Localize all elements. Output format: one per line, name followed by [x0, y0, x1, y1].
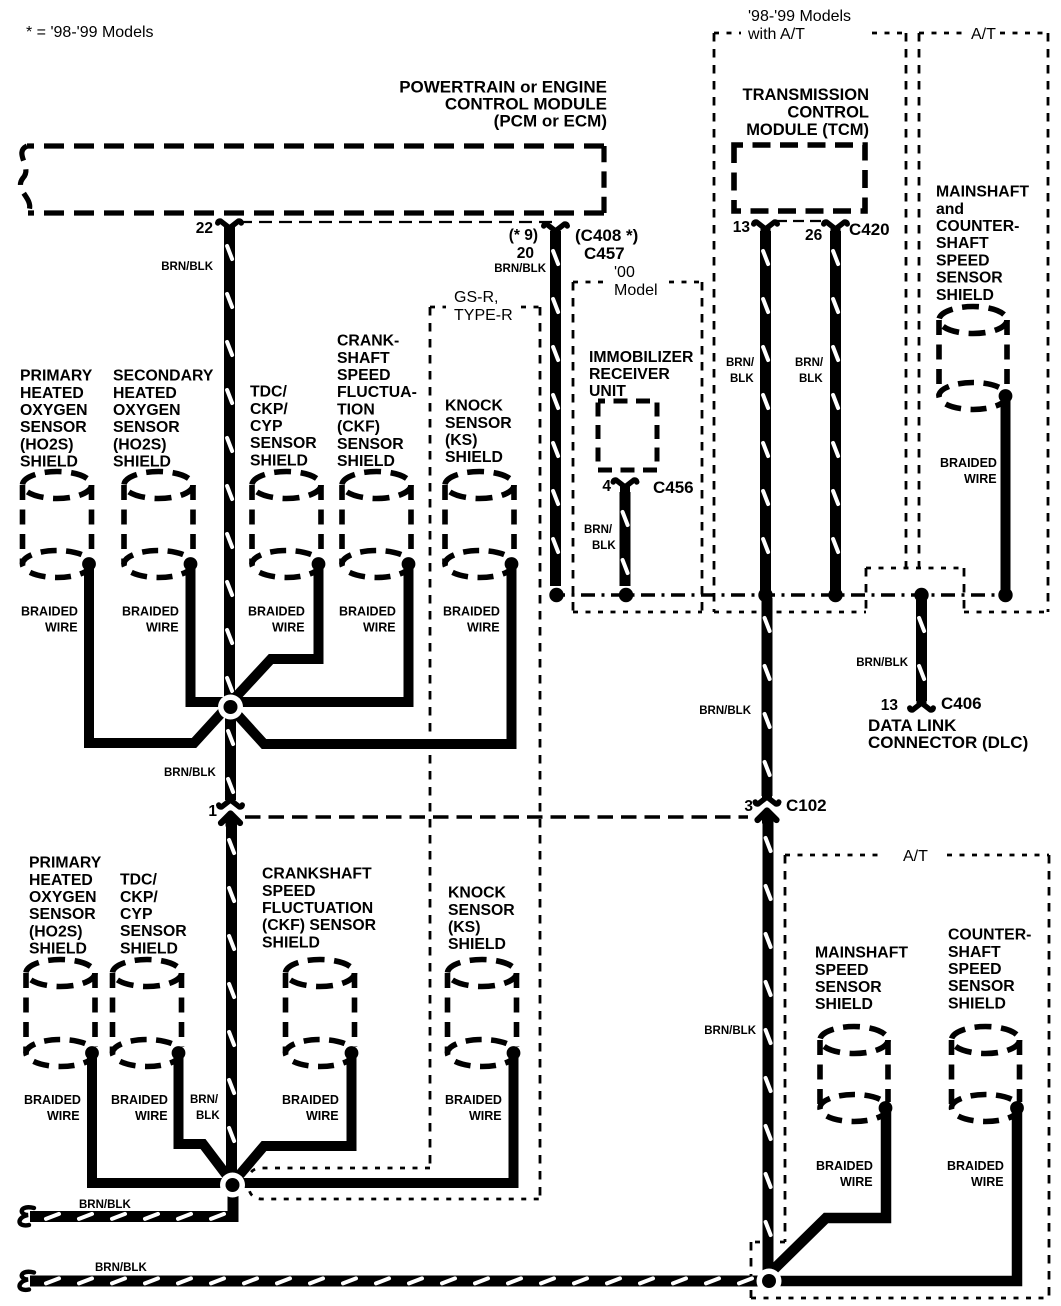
wire BRN/BLK TCM pin13 bus to C102: [762, 598, 773, 796]
svg-text:WIRE: WIRE: [363, 621, 396, 635]
shield cylinder primary HO2S (upper): [23, 472, 96, 578]
svg-text:TDC/: TDC/: [250, 384, 287, 401]
svg-text:HEATED: HEATED: [29, 872, 93, 889]
svg-text:BRN/BLK: BRN/BLK: [95, 1262, 147, 1274]
svg-text:BRAIDED: BRAIDED: [339, 605, 396, 619]
braided wire primary HO2S shield (upper): [89, 566, 226, 743]
svg-text:WIRE: WIRE: [469, 1109, 502, 1123]
wire BRN/BLK lower junction to left end: [30, 1189, 239, 1222]
bus node DLC wire: [914, 588, 928, 602]
junction node (bottom right): [757, 1269, 782, 1294]
svg-text:BRAIDED: BRAIDED: [21, 605, 78, 619]
svg-text:BLK: BLK: [592, 540, 616, 552]
svg-text:CYP: CYP: [120, 906, 152, 923]
svg-text:PRIMARY: PRIMARY: [20, 368, 93, 385]
dotted box at shield bus junction: [866, 568, 964, 612]
braided wire knock sensor shield (upper): [234, 566, 512, 744]
label braided wire TDC (lower): [111, 1093, 168, 1123]
svg-text:TYPE-R: TYPE-R: [454, 307, 513, 324]
svg-text:SHIELD: SHIELD: [29, 941, 87, 958]
svg-text:'98-'99 Models: '98-'99 Models: [748, 8, 851, 25]
pin number 13 (TCM): [733, 219, 751, 236]
svg-text:OXYGEN: OXYGEN: [20, 402, 88, 419]
svg-text:SHIELD: SHIELD: [262, 934, 320, 951]
svg-text:SENSOR: SENSOR: [20, 419, 87, 436]
svg-text:KNOCK: KNOCK: [448, 885, 507, 902]
label DATA LINK CONNECTOR (DLC): [868, 716, 1028, 752]
svg-text:BRAIDED: BRAIDED: [24, 1093, 81, 1107]
svg-text:SENSOR: SENSOR: [448, 902, 515, 919]
svg-text:SPEED: SPEED: [948, 961, 1002, 978]
svg-text:OXYGEN: OXYGEN: [29, 889, 97, 906]
shield bus dash-dot line: [551, 593, 1006, 597]
label '00 Model: [614, 264, 658, 299]
label mainshaft and countershaft shield: [936, 184, 1029, 304]
svg-text:MODULE (TCM): MODULE (TCM): [746, 121, 869, 139]
svg-text:20: 20: [517, 245, 534, 262]
svg-text:SPEED: SPEED: [262, 883, 316, 900]
svg-text:22: 22: [196, 220, 213, 237]
label PCM: [399, 78, 607, 131]
svg-text:SHIELD: SHIELD: [948, 995, 1006, 1012]
label C102: [786, 796, 827, 815]
braided wire mainshaft/countershaft shield (top right): [1001, 400, 1011, 592]
label CKF shield (lower): [262, 866, 377, 952]
svg-text:BRAIDED: BRAIDED: [248, 605, 305, 619]
svg-text:KNOCK: KNOCK: [445, 398, 504, 415]
svg-text:BRAIDED: BRAIDED: [816, 1159, 873, 1173]
label secondary HO2S shield (upper): [113, 368, 214, 471]
braided wire secondary HO2S shield (upper): [191, 566, 225, 702]
wire BRN/BLK junction to connector 1: [225, 711, 236, 800]
pin number 22: [196, 220, 213, 237]
braided wire CKF shield (upper): [237, 566, 409, 702]
svg-text:SENSOR: SENSOR: [815, 979, 882, 996]
svg-text:SHIELD: SHIELD: [120, 940, 178, 957]
svg-text:BRAIDED: BRAIDED: [111, 1093, 168, 1107]
svg-text:SHAFT: SHAFT: [936, 235, 989, 252]
svg-text:SENSOR: SENSOR: [948, 978, 1015, 995]
svg-text:SHIELD: SHIELD: [936, 287, 994, 304]
label C456: [653, 478, 694, 497]
dashed link pin13 to pin26: [776, 220, 826, 222]
svg-text:BRN/: BRN/: [795, 357, 824, 369]
svg-text:SHAFT: SHAFT: [948, 944, 1001, 961]
dotted box '98-'99 Models with A/T: [714, 33, 906, 612]
dotted box GS-R TYPE-R: [248, 307, 540, 1199]
pin 22 connector flare: [218, 221, 242, 233]
label TDC/CKP/CYP shield (upper): [250, 384, 317, 470]
svg-text:SHIELD: SHIELD: [337, 453, 395, 470]
label A/T (bottom): [903, 848, 928, 865]
pin number 1: [208, 803, 217, 820]
bus node C457 wire: [549, 588, 563, 602]
svg-text:BRAIDED: BRAIDED: [443, 605, 500, 619]
svg-text:WIRE: WIRE: [971, 1175, 1004, 1189]
svg-text:Model: Model: [614, 282, 658, 299]
label GS-R TYPE-R: [454, 289, 513, 324]
svg-text:HEATED: HEATED: [20, 385, 84, 402]
svg-text:(KS): (KS): [448, 919, 480, 936]
braided wire knock sensor shield (lower): [240, 1056, 514, 1183]
svg-text:SENSOR: SENSOR: [29, 906, 96, 923]
svg-text:TION: TION: [337, 401, 375, 418]
label '98-'99 Models with A/T: [747, 8, 851, 43]
svg-text:SHIELD: SHIELD: [250, 452, 308, 469]
label mainshaft speed sensor shield: [815, 945, 908, 1014]
wire BRN/BLK from immobilizer C456 pin 4: [620, 492, 631, 586]
svg-text:COUNTER-: COUNTER-: [948, 927, 1031, 944]
svg-text:SECONDARY: SECONDARY: [113, 368, 214, 385]
svg-text:with A/T: with A/T: [747, 26, 805, 43]
wire BRN/BLK bus to C406 DLC: [916, 598, 927, 701]
braided wire TDC/CKP/CYP shield (upper): [234, 566, 319, 699]
svg-text:BRN/BLK: BRN/BLK: [161, 261, 213, 273]
label BRN/BLK lower main wire: [190, 1094, 220, 1122]
shield cylinder primary HO2S (lower): [26, 960, 99, 1067]
pin 26 connector flare (TCM): [824, 222, 848, 234]
svg-text:HEATED: HEATED: [113, 385, 177, 402]
svg-text:SHIELD: SHIELD: [113, 454, 171, 471]
svg-text:BLK: BLK: [799, 373, 823, 385]
svg-text:WIRE: WIRE: [467, 621, 500, 635]
svg-text:CONNECTOR (DLC): CONNECTOR (DLC): [868, 733, 1028, 752]
label braided wire CKF (lower): [282, 1093, 339, 1123]
svg-text:(C408 *): (C408 *): [575, 226, 638, 245]
label A/T (top): [971, 26, 996, 43]
svg-text:BRN/BLK: BRN/BLK: [856, 657, 908, 669]
label BRN/BLK DLC wire: [856, 657, 908, 669]
svg-text:TRANSMISSION: TRANSMISSION: [742, 86, 869, 104]
svg-text:BRAIDED: BRAIDED: [122, 605, 179, 619]
svg-text:(PCM or ECM): (PCM or ECM): [494, 112, 607, 131]
shield cylinder mainshaft speed sensor: [820, 1027, 892, 1122]
svg-text:SENSOR: SENSOR: [445, 415, 512, 432]
svg-text:WIRE: WIRE: [47, 1109, 80, 1123]
svg-text:13: 13: [881, 697, 899, 714]
dotted box A/T (top right): [919, 33, 1048, 612]
label IMMOBILIZER RECEIVER UNIT: [589, 349, 694, 400]
svg-text:BLK: BLK: [196, 1110, 220, 1122]
label BRN/BLK mid-left run: [79, 1199, 131, 1211]
svg-text:CYP: CYP: [250, 418, 282, 435]
label countershaft speed sensor shield: [948, 927, 1031, 1013]
pin number 13 (DLC): [881, 697, 899, 714]
label BRN/BLK C102 wire (upper): [699, 705, 751, 717]
svg-text:(HO2S): (HO2S): [29, 923, 83, 940]
svg-text:(HO2S): (HO2S): [20, 436, 74, 453]
label BRN/BLK TCM pin26 wire: [795, 357, 824, 385]
shield cylinder secondary HO2S (upper): [124, 472, 197, 578]
svg-text:UNIT: UNIT: [589, 383, 626, 400]
svg-text:(* 9): (* 9): [509, 227, 538, 244]
svg-text:MAINSHAFT: MAINSHAFT: [936, 184, 1029, 201]
wire BRN/BLK bottom run: [30, 1276, 770, 1287]
label BRN/BLK TCM pin13 wire: [726, 357, 755, 385]
svg-text:SENSOR: SENSOR: [337, 436, 404, 453]
svg-text:'00: '00: [614, 264, 635, 281]
connector 1 (inline pair): [219, 795, 243, 827]
svg-text:4: 4: [602, 478, 611, 495]
legend note: [26, 24, 154, 41]
svg-text:BRN/BLK: BRN/BLK: [699, 705, 751, 717]
connector C102 (inline pair): [755, 792, 779, 824]
label C406: [941, 694, 982, 713]
svg-text:WIRE: WIRE: [964, 472, 997, 486]
wire BRN/BLK connector 1 to lower junction: [226, 820, 237, 1181]
label braided wire countershaft (lower): [947, 1159, 1004, 1189]
svg-text:C102: C102: [786, 796, 827, 815]
svg-text:CRANKSHAFT: CRANKSHAFT: [262, 866, 372, 883]
svg-text:CRANK-: CRANK-: [337, 333, 399, 350]
label C420: [849, 220, 890, 239]
pin number 26 (TCM): [805, 227, 823, 244]
bus node TCM pin26 wire: [828, 588, 842, 602]
svg-text:BRAIDED: BRAIDED: [947, 1159, 1004, 1173]
svg-text:(KS): (KS): [445, 432, 477, 449]
shield cylinder CKF (upper): [342, 472, 415, 578]
svg-text:26: 26: [805, 227, 823, 244]
bus node TCM pin13 wire: [758, 588, 772, 602]
svg-text:RECEIVER: RECEIVER: [589, 366, 670, 383]
label BRN/BLK bottom run: [95, 1262, 147, 1274]
wire BRN/BLK from TCM pin 13: [760, 231, 771, 593]
svg-text:CKP/: CKP/: [120, 889, 158, 906]
svg-text:COUNTER-: COUNTER-: [936, 218, 1019, 235]
svg-text:BRN/BLK: BRN/BLK: [704, 1025, 756, 1037]
svg-text:GS-R,: GS-R,: [454, 289, 498, 306]
svg-text:SHIELD: SHIELD: [815, 996, 873, 1013]
label primary HO2S shield (lower): [29, 855, 102, 958]
shield cylinder knock sensor (upper): [445, 472, 518, 578]
svg-text:C420: C420: [849, 220, 890, 239]
svg-text:13: 13: [733, 219, 751, 236]
svg-text:* = '98-'99 Models: * = '98-'99 Models: [26, 24, 154, 41]
svg-text:(CKF): (CKF): [337, 419, 380, 436]
label knock sensor shield (upper): [445, 398, 512, 467]
svg-text:WIRE: WIRE: [45, 621, 78, 635]
label braided wire CKF (upper): [339, 605, 396, 635]
svg-text:A/T: A/T: [903, 848, 928, 865]
svg-text:TDC/: TDC/: [120, 872, 157, 889]
label BRN/BLK pin22 wire: [161, 261, 213, 273]
svg-text:SENSOR: SENSOR: [120, 923, 187, 940]
svg-text:BRN/: BRN/: [190, 1094, 219, 1106]
svg-text:WIRE: WIRE: [146, 621, 179, 635]
svg-text:SHIELD: SHIELD: [20, 454, 78, 471]
svg-text:WIRE: WIRE: [306, 1109, 339, 1123]
module box immobilizer receiver unit: [598, 401, 657, 470]
wire BRN/BLK from TCM pin 26: [830, 231, 841, 593]
svg-text:SPEED: SPEED: [936, 252, 990, 269]
pin 4 connector flare (immobilizer): [613, 480, 637, 492]
svg-text:SHIELD: SHIELD: [448, 936, 506, 953]
svg-text:SENSOR: SENSOR: [113, 419, 180, 436]
shield cylinder mainshaft and countershaft (top right): [939, 307, 1012, 410]
shield cylinder CKF (lower): [286, 960, 359, 1067]
wire BRN/BLK from PCM pin 20 / C457: [550, 231, 561, 586]
svg-text:SPEED: SPEED: [815, 962, 869, 979]
braided wire primary HO2S shield (lower): [92, 1056, 226, 1183]
label BRN/BLK C102 wire (lower): [704, 1025, 756, 1037]
module box PCM/ECM: [20, 146, 604, 213]
wire BRN/BLK C102 to bottom junction: [763, 818, 774, 1276]
label CKF shield (upper): [337, 333, 417, 470]
label braided wire knock (lower): [445, 1093, 502, 1123]
svg-text:SPEED: SPEED: [337, 367, 391, 384]
svg-text:BRAIDED: BRAIDED: [282, 1093, 339, 1107]
label BRN/BLK immobilizer wire: [584, 524, 616, 552]
svg-text:WIRE: WIRE: [135, 1109, 168, 1123]
label primary HO2S shield (upper): [20, 368, 93, 471]
braided wire mainshaft speed sensor shield: [769, 1112, 886, 1274]
label TCM: [742, 86, 869, 139]
svg-text:FLUCTUA-: FLUCTUA-: [337, 384, 417, 401]
svg-text:and: and: [936, 201, 964, 218]
pin number 3 (C102): [744, 798, 753, 815]
braided wire TDC/CKP/CYP shield (lower): [179, 1056, 229, 1177]
label braided wire mainshaft (lower): [816, 1159, 873, 1189]
svg-text:(HO2S): (HO2S): [113, 436, 167, 453]
svg-text:BRN/: BRN/: [726, 357, 755, 369]
wire end squiggle (bottom left): [19, 1272, 34, 1290]
braided wire CKF shield (lower): [236, 1056, 352, 1179]
label TDC/CKP/CYP shield (lower): [120, 872, 187, 958]
pin number 4 (immobilizer): [602, 478, 611, 495]
shield cylinder countershaft speed sensor: [952, 1027, 1024, 1122]
pin 20 connector flare: [544, 224, 568, 236]
svg-text:BRN/BLK: BRN/BLK: [79, 1199, 131, 1211]
dotted box A/T (bottom): [751, 855, 1049, 1298]
svg-text:SENSOR: SENSOR: [936, 270, 1003, 287]
label braided wire primary (upper): [21, 605, 78, 635]
label (C408 *) C457: [575, 226, 638, 263]
svg-text:CONTROL: CONTROL: [787, 104, 869, 122]
shield cylinder knock sensor (lower): [448, 960, 521, 1067]
svg-text:C406: C406: [941, 694, 982, 713]
svg-text:BRN/: BRN/: [584, 524, 613, 536]
dashed link pin22 to pin20: [239, 221, 552, 223]
label knock sensor shield (lower): [448, 885, 515, 954]
junction node (lower star): [220, 1173, 245, 1198]
svg-text:IMMOBILIZER: IMMOBILIZER: [589, 349, 694, 366]
label BRN/BLK junction wire: [164, 767, 216, 779]
wire BRN/BLK from PCM pin 22: [224, 226, 235, 703]
svg-text:SHAFT: SHAFT: [337, 350, 390, 367]
junction node (upper star): [218, 695, 243, 720]
svg-text:WIRE: WIRE: [840, 1175, 873, 1189]
label braided wire TDC (upper): [248, 605, 305, 635]
dotted box '00 Model: [573, 282, 702, 612]
svg-text:BRAIDED: BRAIDED: [445, 1093, 502, 1107]
svg-text:PRIMARY: PRIMARY: [29, 855, 102, 872]
svg-text:CKP/: CKP/: [250, 401, 288, 418]
shield cylinder TDC/CKP/CYP (lower): [113, 960, 186, 1067]
shield cylinder TDC/CKP/CYP (upper): [252, 472, 325, 578]
braided wire countershaft speed sensor shield: [770, 1112, 1017, 1281]
svg-text:BRN/BLK: BRN/BLK: [164, 767, 216, 779]
dashed line connector 1 to C102: [245, 815, 748, 818]
svg-text:WIRE: WIRE: [272, 621, 305, 635]
svg-text:BLK: BLK: [730, 373, 754, 385]
svg-text:C457: C457: [584, 244, 625, 263]
svg-text:A/T: A/T: [971, 26, 996, 43]
svg-text:FLUCTUATION: FLUCTUATION: [262, 900, 373, 917]
svg-text:BRAIDED: BRAIDED: [940, 456, 997, 470]
svg-text:C456: C456: [653, 478, 694, 497]
svg-text:SENSOR: SENSOR: [250, 435, 317, 452]
module box TCM: [734, 145, 865, 211]
connector C406 end feet: [910, 698, 934, 710]
svg-text:BRN/BLK: BRN/BLK: [494, 263, 546, 275]
bus node immobilizer wire: [619, 588, 633, 602]
svg-text:SHIELD: SHIELD: [445, 449, 503, 466]
label braided wire secondary (upper): [122, 605, 179, 635]
svg-text:OXYGEN: OXYGEN: [113, 402, 181, 419]
label braided wire primary (lower): [24, 1093, 81, 1123]
label braided wire knock (upper): [443, 605, 500, 635]
bus node mainshaft braided wire: [998, 588, 1012, 602]
label (* 9) 20: [509, 227, 538, 262]
label braided wire mainshaft (top right): [940, 456, 997, 486]
svg-text:1: 1: [208, 803, 217, 820]
svg-text:MAINSHAFT: MAINSHAFT: [815, 945, 908, 962]
svg-text:3: 3: [744, 798, 753, 815]
label BRN/BLK pin20 wire: [494, 263, 546, 275]
wire end squiggle (mid left): [19, 1207, 34, 1225]
svg-text:(CKF) SENSOR: (CKF) SENSOR: [262, 917, 377, 934]
pin 13 connector flare (TCM): [754, 222, 778, 234]
